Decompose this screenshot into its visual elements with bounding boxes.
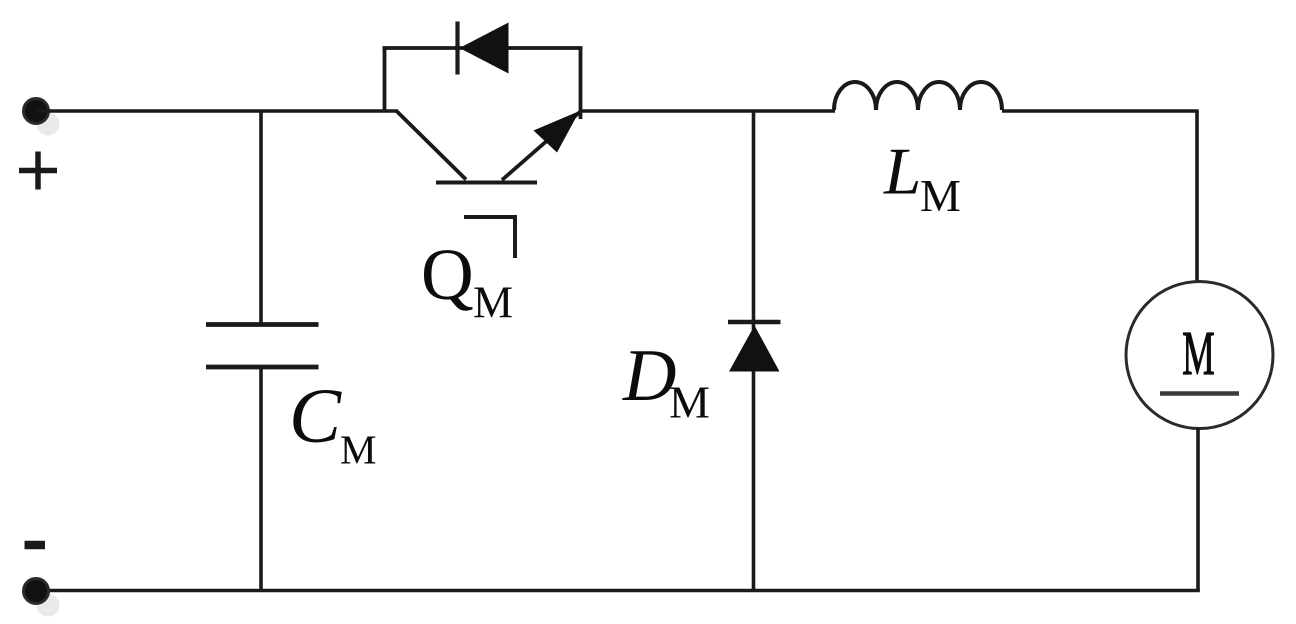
motor M letter [1182, 319, 1214, 389]
wire right branch upper vertical [1195, 111, 1199, 283]
label Q_M [421, 234, 513, 328]
transistor Q2 right diagonal [502, 111, 581, 180]
terminal negative [24, 579, 49, 604]
svg-text:L: L [883, 135, 921, 209]
label D_M [622, 335, 710, 428]
wire right branch lower vertical [1196, 428, 1200, 592]
svg-text:M: M [1182, 319, 1214, 389]
svg-text:Q: Q [421, 234, 474, 315]
motor underline [1160, 391, 1239, 395]
wire bottom horizontal [36, 589, 1200, 593]
wire diode branch vertical [752, 111, 756, 592]
terminal shadow bottom-left [37, 594, 60, 617]
wire bypass branch top horizontal [383, 46, 583, 50]
svg-text:M: M [669, 377, 710, 428]
transistor Q2 left diagonal (collector) [396, 111, 466, 180]
svg-text:M: M [473, 278, 513, 328]
transistor Q2 emitter bar [436, 181, 537, 185]
diode D_M cathode bar [728, 320, 781, 324]
terminal positive [24, 99, 49, 124]
wire bypass branch left vertical [383, 47, 387, 112]
wire capacitor top branch [259, 111, 263, 325]
diode D_M triangle [729, 326, 780, 372]
terminal shadow top-left [37, 113, 60, 136]
diode antiparallel triangle [460, 23, 509, 74]
diode antiparallel cathode bar [455, 22, 459, 75]
wire bypass branch right vertical [579, 47, 583, 120]
capacitor C_M [206, 325, 319, 368]
label L_M [883, 135, 961, 222]
wire top middle horizontal [581, 109, 835, 113]
motor M circle [1126, 282, 1273, 429]
minus label [25, 541, 46, 550]
gate lead Q_M [464, 217, 515, 258]
svg-text:M: M [340, 427, 376, 473]
wire top right horizontal [1002, 109, 1199, 113]
transistor Q2 emitter arrow [534, 111, 580, 153]
svg-text:C: C [289, 372, 342, 459]
wire capacitor bottom branch [259, 367, 263, 591]
wire top-left horizontal [36, 109, 398, 113]
plus label [19, 152, 57, 190]
label C_M [289, 372, 376, 473]
inductor L_M coil [834, 82, 1002, 110]
svg-text:M: M [920, 170, 961, 221]
